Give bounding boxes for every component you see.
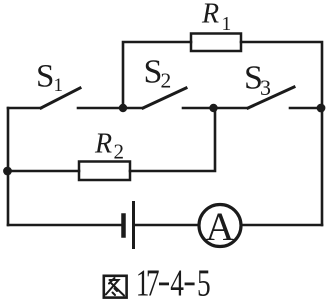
svg-text:R: R xyxy=(94,129,112,160)
svg-text:1: 1 xyxy=(54,75,64,96)
svg-text:2: 2 xyxy=(161,68,172,92)
svg-text:R: R xyxy=(201,0,219,30)
svg-text:2: 2 xyxy=(114,140,125,164)
svg-text:A: A xyxy=(206,204,235,249)
svg-text:4: 4 xyxy=(170,262,184,303)
svg-text:1: 1 xyxy=(222,14,232,35)
svg-text:3: 3 xyxy=(260,75,271,100)
svg-text:S: S xyxy=(36,59,54,95)
svg-text:7: 7 xyxy=(146,262,160,303)
svg-text:5: 5 xyxy=(197,262,211,303)
